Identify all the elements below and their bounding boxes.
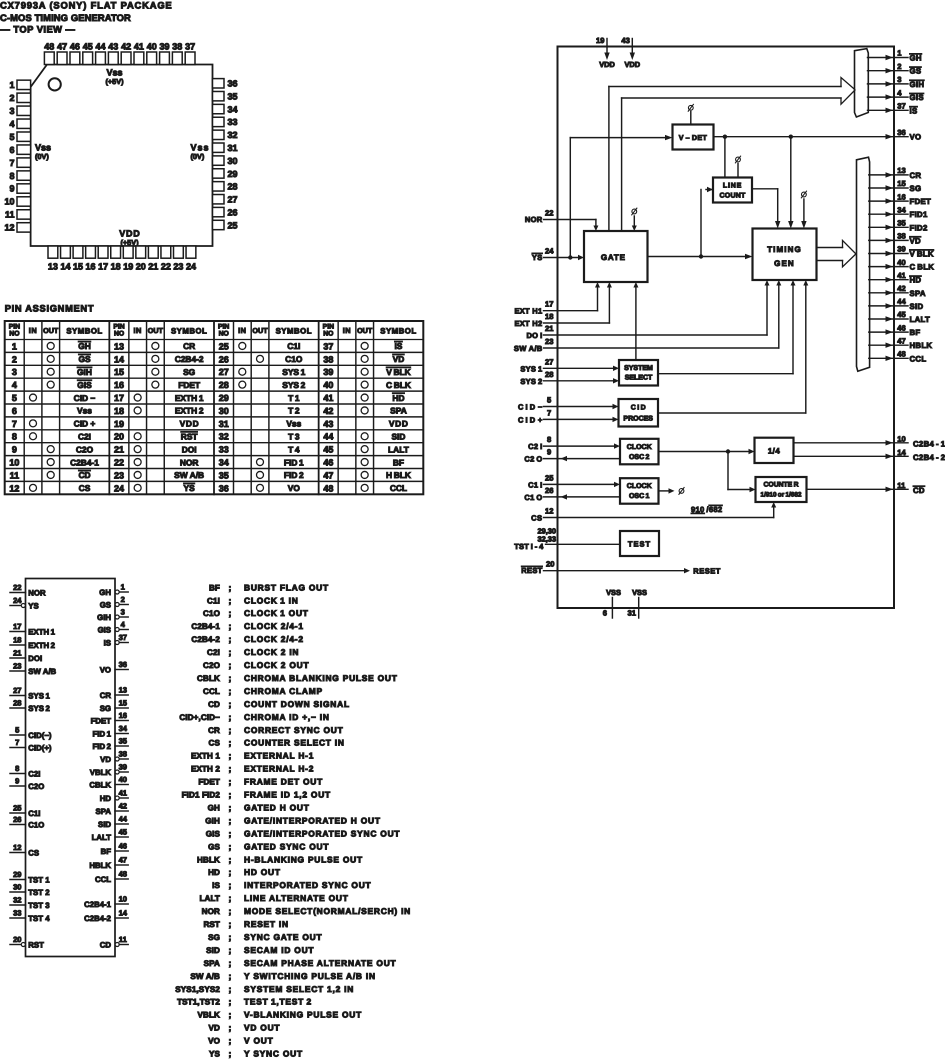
svg-text:25: 25 bbox=[545, 473, 554, 482]
svg-text:VSS: VSS bbox=[606, 588, 621, 597]
svg-text:5: 5 bbox=[9, 132, 14, 142]
svg-text:TST I - 4: TST I - 4 bbox=[514, 542, 544, 551]
svg-text:LINE: LINE bbox=[723, 183, 742, 190]
output pin 4 GIS bbox=[868, 96, 909, 98]
svg-text:19: 19 bbox=[123, 262, 133, 272]
output pin 3 GIH bbox=[868, 83, 909, 85]
svg-text:OUT: OUT bbox=[252, 326, 268, 335]
svg-text:11: 11 bbox=[10, 470, 20, 480]
svg-text:;: ; bbox=[229, 984, 232, 994]
svg-text:IN: IN bbox=[29, 326, 37, 335]
clock phi input to GATE bbox=[632, 209, 637, 214]
svg-text:GIS: GIS bbox=[910, 93, 924, 102]
package pin 40 (top) bbox=[147, 52, 157, 65]
svg-text:BURST FLAG OUT: BURST FLAG OUT bbox=[244, 582, 329, 592]
svg-text:V-BLANKING PULSE OUT: V-BLANKING PULSE OUT bbox=[244, 1010, 362, 1020]
svg-text:17: 17 bbox=[98, 262, 108, 272]
svg-text:C2B4-2: C2B4-2 bbox=[191, 635, 220, 644]
svg-text:PIN: PIN bbox=[113, 324, 124, 331]
wire junction to LINE COUNT top bbox=[724, 137, 726, 178]
svg-text:42: 42 bbox=[119, 801, 127, 810]
svg-text:HD OUT: HD OUT bbox=[244, 867, 281, 877]
package pin 13 (bottom) bbox=[48, 246, 58, 258]
svg-text:CLOCK 2 OUT: CLOCK 2 OUT bbox=[244, 660, 309, 670]
svg-text:GS: GS bbox=[78, 354, 91, 364]
svg-text:1/4: 1/4 bbox=[768, 447, 781, 456]
svg-text:C2 I: C2 I bbox=[528, 442, 542, 451]
package pin 3 (left) bbox=[17, 106, 31, 115]
output pin 37 IS bbox=[868, 109, 909, 111]
svg-text:C2B4 - 2: C2B4 - 2 bbox=[913, 453, 945, 462]
svg-text:;: ; bbox=[229, 777, 232, 787]
svg-text:21: 21 bbox=[114, 445, 124, 455]
svg-text:7: 7 bbox=[547, 408, 551, 417]
svg-text:46: 46 bbox=[323, 457, 333, 467]
svg-text:CHROMA ID +,− IN: CHROMA ID +,− IN bbox=[244, 712, 330, 722]
svg-text:SYS1,SYS2: SYS1,SYS2 bbox=[175, 985, 220, 994]
hollow block-arrow head into top bus bar bbox=[841, 78, 855, 105]
svg-text:NO: NO bbox=[323, 331, 333, 338]
svg-text:C2O: C2O bbox=[76, 444, 94, 454]
package pin 36 (right) bbox=[213, 79, 225, 88]
svg-text:EXTH 2: EXTH 2 bbox=[28, 641, 55, 650]
svg-text:37: 37 bbox=[897, 102, 905, 111]
svg-text:CCL: CCL bbox=[203, 687, 220, 696]
svg-text:28: 28 bbox=[219, 380, 229, 390]
svg-text:NOR: NOR bbox=[202, 907, 220, 916]
svg-text:4: 4 bbox=[897, 88, 902, 97]
svg-text:CR: CR bbox=[183, 341, 195, 351]
svg-text:V – DET: V – DET bbox=[679, 134, 708, 142]
svg-text:16: 16 bbox=[119, 711, 127, 720]
svg-text:NO: NO bbox=[114, 331, 124, 338]
svg-text:3: 3 bbox=[121, 607, 125, 616]
wire CID PROCES out to TIMING GEN bbox=[658, 412, 806, 414]
net VO from V-DET to pin 36 bbox=[714, 136, 909, 138]
svg-text:VO: VO bbox=[208, 1037, 220, 1046]
svg-text:;: ; bbox=[229, 582, 232, 592]
symbol pin 13 CR (right) bbox=[115, 694, 128, 696]
svg-text:YS: YS bbox=[532, 253, 543, 262]
svg-text:GATE/INTERPORATED H OUT: GATE/INTERPORATED H OUT bbox=[244, 815, 381, 825]
OSC1 phi output bbox=[659, 490, 670, 492]
svg-text:33: 33 bbox=[219, 445, 229, 455]
svg-text:C2O: C2O bbox=[203, 661, 220, 670]
symbol pin 39 VBLK (right) bbox=[115, 770, 119, 774]
svg-text:48: 48 bbox=[897, 350, 905, 359]
svg-text:DOI: DOI bbox=[28, 654, 42, 663]
svg-text:7: 7 bbox=[12, 419, 17, 429]
svg-text:47: 47 bbox=[57, 42, 67, 52]
svg-text:TST 4: TST 4 bbox=[28, 914, 50, 923]
svg-text:GEN: GEN bbox=[774, 259, 795, 268]
svg-text:33: 33 bbox=[228, 117, 238, 127]
svg-text:26: 26 bbox=[219, 354, 229, 364]
svg-text:GS: GS bbox=[208, 842, 220, 851]
svg-text:26: 26 bbox=[545, 486, 553, 495]
svg-text:OSC 2: OSC 2 bbox=[629, 454, 650, 461]
package pin 44 (top) bbox=[96, 52, 106, 65]
svg-text:45: 45 bbox=[119, 827, 128, 836]
clock phi input to V-DET bbox=[688, 105, 693, 110]
symbol pin 32 TST 3 (left) bbox=[10, 904, 26, 906]
symbol pin 8 C2I (left) bbox=[10, 773, 26, 775]
package pin 37 (top) bbox=[185, 52, 195, 65]
svg-text:18: 18 bbox=[545, 312, 553, 321]
V-DET block bbox=[673, 125, 714, 150]
svg-text:VD OUT: VD OUT bbox=[244, 1023, 280, 1033]
svg-text:3: 3 bbox=[9, 106, 14, 116]
svg-text:;: ; bbox=[229, 867, 232, 877]
wire junction to TIMING GEN top bbox=[790, 137, 792, 224]
svg-text:NO: NO bbox=[9, 331, 19, 338]
svg-text:44: 44 bbox=[95, 42, 105, 52]
svg-text:SYSTEM: SYSTEM bbox=[624, 365, 653, 372]
svg-text:;: ; bbox=[229, 880, 232, 890]
svg-text:;: ; bbox=[229, 686, 232, 696]
TEST block bbox=[620, 531, 659, 556]
symbol pin 26 C1O (left) bbox=[10, 824, 26, 826]
package pin 1 (left) bbox=[17, 80, 31, 89]
svg-text:C BLK: C BLK bbox=[910, 263, 935, 272]
symbol pin 23 SW A/B (left) bbox=[10, 670, 26, 672]
COUNTER 1/910 or 1/682 block bbox=[756, 477, 807, 502]
wire LINE COUNT left input from GATE output net bbox=[706, 189, 713, 191]
svg-text:BF: BF bbox=[910, 328, 921, 337]
svg-text:CID(−): CID(−) bbox=[28, 731, 52, 740]
svg-text:34: 34 bbox=[228, 104, 238, 114]
svg-text:VD: VD bbox=[910, 236, 922, 245]
symbol pin 29 TST 1 (left) bbox=[10, 879, 26, 881]
symbol pin 24 YS (left) bbox=[10, 605, 21, 607]
svg-text:;: ; bbox=[229, 699, 232, 709]
svg-text:IS: IS bbox=[394, 341, 402, 351]
svg-text:40: 40 bbox=[323, 380, 333, 390]
output pin 1 GH bbox=[868, 57, 909, 59]
package pin 48 (top) bbox=[44, 52, 54, 65]
wire LINE COUNT out to TIMING GEN top bbox=[752, 188, 778, 190]
svg-text:SYMBOL: SYMBOL bbox=[66, 327, 102, 336]
package pin 2 (left) bbox=[17, 93, 31, 102]
svg-text:NO: NO bbox=[219, 331, 229, 338]
svg-text:18: 18 bbox=[111, 262, 121, 272]
symbol pin 48 CCL (right) bbox=[115, 878, 128, 880]
output pin 2 GS bbox=[868, 70, 909, 72]
svg-text:48: 48 bbox=[119, 869, 127, 878]
svg-text:6: 6 bbox=[9, 145, 14, 155]
svg-text:RESET: RESET bbox=[693, 566, 721, 575]
svg-text:34: 34 bbox=[897, 205, 906, 214]
svg-text:32: 32 bbox=[13, 895, 21, 904]
svg-text:30: 30 bbox=[228, 156, 238, 166]
svg-text:CID(+): CID(+) bbox=[28, 743, 52, 752]
svg-text:FDET: FDET bbox=[910, 197, 932, 206]
svg-text:H BLK: H BLK bbox=[386, 470, 411, 480]
svg-text:39: 39 bbox=[159, 42, 169, 52]
svg-text:CCL: CCL bbox=[910, 354, 927, 363]
svg-text:SYS 2: SYS 2 bbox=[282, 380, 305, 390]
svg-text:C BLK: C BLK bbox=[386, 380, 411, 390]
svg-text:35: 35 bbox=[119, 736, 128, 745]
svg-text:;: ; bbox=[229, 608, 232, 618]
svg-text:LALT: LALT bbox=[388, 444, 410, 454]
package pin 6 (left) bbox=[17, 145, 31, 154]
svg-text:Vss: Vss bbox=[286, 419, 301, 429]
package pin 35 (right) bbox=[213, 91, 225, 100]
symbol pin 18 EXTH&#8201;2 (left) bbox=[10, 644, 26, 646]
svg-text:13: 13 bbox=[897, 166, 905, 175]
svg-text:IN: IN bbox=[343, 326, 351, 335]
svg-text:22: 22 bbox=[161, 262, 171, 272]
svg-text:28: 28 bbox=[13, 698, 21, 707]
svg-text:27: 27 bbox=[13, 686, 21, 695]
svg-text:HD: HD bbox=[392, 393, 404, 403]
svg-text:CHROMA BLANKING PULSE OUT: CHROMA BLANKING PULSE OUT bbox=[244, 673, 398, 683]
svg-text:45: 45 bbox=[897, 310, 906, 319]
svg-text:15: 15 bbox=[114, 367, 124, 377]
wire OSC2 out bbox=[659, 451, 750, 453]
package pin 17 (bottom) bbox=[98, 246, 108, 258]
svg-text:SECAM ID OUT: SECAM ID OUT bbox=[244, 945, 314, 955]
svg-text:13: 13 bbox=[114, 341, 124, 351]
svg-text:VBLK: VBLK bbox=[90, 768, 112, 777]
svg-text:32: 32 bbox=[228, 130, 238, 140]
svg-text:;: ; bbox=[229, 634, 232, 644]
package pin 47 (top) bbox=[57, 52, 67, 65]
CID PROCES block bbox=[619, 399, 659, 427]
wire SYSTEM SELECT out to TIMING GEN bbox=[658, 373, 793, 375]
svg-text:39: 39 bbox=[897, 245, 905, 254]
package pin 38 (top) bbox=[172, 52, 182, 65]
svg-text:;: ; bbox=[229, 764, 232, 774]
svg-text:GIH: GIH bbox=[910, 80, 925, 89]
svg-text:23: 23 bbox=[173, 262, 183, 272]
svg-text:GS: GS bbox=[100, 600, 111, 609]
svg-text:C-MOS TIMING GENERATOR: C-MOS TIMING GENERATOR bbox=[0, 12, 131, 23]
svg-text:CID +: CID + bbox=[74, 419, 96, 429]
svg-text:CCL: CCL bbox=[390, 483, 407, 493]
svg-text:YS: YS bbox=[28, 601, 38, 610]
svg-text:32: 32 bbox=[219, 432, 229, 442]
svg-text:DO I: DO I bbox=[526, 331, 542, 340]
svg-text:C1I: C1I bbox=[287, 341, 300, 351]
svg-text:30: 30 bbox=[219, 406, 229, 416]
svg-text:VO: VO bbox=[100, 665, 111, 674]
svg-text:20: 20 bbox=[114, 432, 124, 442]
svg-text:40: 40 bbox=[897, 258, 905, 267]
svg-text:T 1: T 1 bbox=[288, 393, 300, 403]
svg-text:37: 37 bbox=[185, 42, 195, 52]
svg-text:EXTH 2: EXTH 2 bbox=[175, 406, 204, 416]
svg-text:SYNC GATE OUT: SYNC GATE OUT bbox=[244, 932, 322, 942]
top output bus bar bbox=[855, 49, 869, 117]
package pin 19 (bottom) bbox=[123, 246, 133, 258]
svg-text:CCL: CCL bbox=[95, 875, 111, 884]
symbol pin 12 CS (left) bbox=[10, 852, 26, 854]
svg-text:C2B4 - 1: C2B4 - 1 bbox=[913, 439, 945, 448]
symbol pin 1 GH (right) bbox=[115, 590, 119, 594]
clock phi input to LINE COUNT bbox=[736, 157, 741, 162]
symbol pin 16 FDET (right) bbox=[115, 720, 128, 722]
svg-text:C1 I: C1 I bbox=[528, 480, 542, 489]
svg-text:10: 10 bbox=[9, 457, 19, 467]
svg-text:2: 2 bbox=[9, 93, 14, 103]
svg-text:15: 15 bbox=[73, 262, 83, 272]
svg-text:CLOCK 1 IN: CLOCK 1 IN bbox=[244, 595, 299, 605]
svg-text:14: 14 bbox=[60, 262, 70, 272]
svg-text:29: 29 bbox=[228, 169, 238, 179]
svg-text:TST1,TST2: TST1,TST2 bbox=[177, 998, 220, 1007]
package pin 16 (bottom) bbox=[86, 246, 96, 258]
svg-text:27: 27 bbox=[228, 195, 238, 205]
svg-text:8: 8 bbox=[15, 764, 19, 773]
package pin 28 (right) bbox=[213, 182, 225, 191]
svg-text:SG: SG bbox=[208, 933, 220, 942]
symbol pin 34 FID&#8201;1 (right) bbox=[115, 733, 128, 735]
svg-text:9: 9 bbox=[12, 445, 17, 455]
1/4 divider block bbox=[755, 438, 794, 463]
svg-text:8: 8 bbox=[547, 435, 551, 444]
svg-text:44: 44 bbox=[119, 814, 128, 823]
svg-text:35: 35 bbox=[228, 91, 238, 101]
svg-text:T 3: T 3 bbox=[288, 431, 300, 441]
svg-text:FDET: FDET bbox=[91, 716, 112, 725]
svg-text:15: 15 bbox=[119, 698, 128, 707]
symbol pin 40 CBLK (right) bbox=[115, 784, 128, 786]
package pin 45 (top) bbox=[83, 52, 93, 65]
svg-text:OUT: OUT bbox=[357, 326, 373, 335]
svg-text:OUT: OUT bbox=[148, 326, 164, 335]
svg-text:16: 16 bbox=[114, 380, 124, 390]
svg-text:;: ; bbox=[229, 1023, 232, 1033]
svg-text:11: 11 bbox=[897, 481, 906, 490]
svg-text:FID 2: FID 2 bbox=[93, 742, 112, 751]
output pin 34 FID1 bbox=[869, 213, 908, 215]
svg-text:TIMING: TIMING bbox=[767, 245, 802, 254]
svg-text:SID: SID bbox=[391, 431, 405, 441]
svg-text:48: 48 bbox=[323, 483, 333, 493]
pin-1 index dot bbox=[49, 78, 61, 90]
svg-text:5: 5 bbox=[15, 725, 20, 734]
svg-text:SYMBOL: SYMBOL bbox=[171, 327, 207, 336]
symbol pin 33 TST 4 (left) bbox=[10, 917, 26, 919]
svg-text:19: 19 bbox=[114, 419, 124, 429]
svg-text:16: 16 bbox=[897, 192, 905, 201]
package pin 29 (right) bbox=[213, 169, 225, 178]
svg-text:;: ; bbox=[229, 595, 232, 605]
svg-text:HBLK: HBLK bbox=[910, 341, 933, 350]
svg-text:CLOCK: CLOCK bbox=[627, 444, 652, 451]
svg-text:9: 9 bbox=[9, 184, 14, 194]
svg-text:38: 38 bbox=[897, 232, 905, 241]
package pin 25 (right) bbox=[213, 220, 225, 229]
svg-text:38: 38 bbox=[323, 354, 333, 364]
svg-text:C1I: C1I bbox=[207, 596, 220, 605]
svg-text:HBLK: HBLK bbox=[89, 861, 111, 870]
svg-text:GIS: GIS bbox=[77, 380, 92, 390]
svg-text:46: 46 bbox=[897, 323, 905, 332]
svg-text:TST 1: TST 1 bbox=[28, 875, 50, 884]
svg-text:YS: YS bbox=[184, 483, 196, 493]
symbol pin 7 CID(+) (left) bbox=[10, 747, 26, 749]
svg-text:48: 48 bbox=[44, 42, 54, 52]
svg-text:;: ; bbox=[229, 712, 232, 722]
svg-text:GIH: GIH bbox=[77, 367, 92, 377]
svg-text:COUNT DOWN SIGNAL: COUNT DOWN SIGNAL bbox=[244, 699, 350, 709]
svg-text:PROCES: PROCES bbox=[623, 416, 653, 423]
svg-text:REST: REST bbox=[521, 566, 542, 575]
svg-text:34: 34 bbox=[119, 724, 128, 733]
svg-text:GH: GH bbox=[99, 588, 111, 597]
svg-text:;: ; bbox=[229, 997, 232, 1007]
svg-text:2: 2 bbox=[12, 354, 17, 364]
svg-text:12: 12 bbox=[13, 843, 21, 852]
output pin 42 SPA bbox=[869, 292, 908, 294]
SYSTEM SELECT block bbox=[619, 360, 658, 386]
svg-text:NOR: NOR bbox=[180, 457, 199, 467]
package pin 7 (left) bbox=[17, 158, 31, 167]
svg-text:OUT: OUT bbox=[43, 326, 59, 335]
package pin 20 (bottom) bbox=[136, 246, 146, 258]
output pin 46 BF bbox=[869, 331, 908, 333]
svg-text:42: 42 bbox=[897, 284, 905, 293]
svg-text:GATE: GATE bbox=[601, 253, 626, 262]
svg-text:GATED H OUT: GATED H OUT bbox=[244, 802, 310, 812]
svg-text:42: 42 bbox=[121, 42, 131, 52]
svg-text:;: ; bbox=[229, 673, 232, 683]
svg-text:IN: IN bbox=[133, 326, 141, 335]
svg-text:45: 45 bbox=[83, 42, 93, 52]
svg-text:OSC 1: OSC 1 bbox=[629, 493, 650, 500]
svg-text:3: 3 bbox=[897, 75, 901, 84]
svg-text:RST: RST bbox=[181, 431, 199, 441]
symbol pin 25 C1I (left) bbox=[10, 812, 26, 814]
svg-text:CLOCK 2/4-2: CLOCK 2/4-2 bbox=[244, 634, 304, 644]
symbol pin 20 RST (left) bbox=[10, 944, 21, 946]
clock phi input to TIMING GEN bbox=[802, 192, 807, 197]
svg-text:CS: CS bbox=[209, 739, 221, 748]
svg-text:2: 2 bbox=[121, 595, 125, 604]
output pin 14 C2B4-2 bbox=[794, 455, 909, 457]
svg-text:5: 5 bbox=[547, 396, 552, 405]
svg-text:37: 37 bbox=[119, 633, 127, 642]
svg-text:C2B4-1: C2B4-1 bbox=[191, 622, 220, 631]
symbol pin 21 DOI (left) bbox=[10, 657, 26, 659]
svg-text:NOR: NOR bbox=[525, 215, 543, 224]
svg-text:28: 28 bbox=[545, 370, 553, 379]
svg-text:29: 29 bbox=[13, 870, 21, 879]
svg-text:C1O: C1O bbox=[28, 820, 44, 829]
LINE COUNT block bbox=[713, 178, 752, 203]
svg-text:19: 19 bbox=[596, 36, 604, 45]
block diagram outer border bbox=[558, 47, 895, 609]
svg-text:C2 O: C2 O bbox=[524, 455, 542, 464]
svg-text:SECAM PHASE ALTERNATE OUT: SECAM PHASE ALTERNATE OUT bbox=[244, 958, 397, 968]
svg-text:20: 20 bbox=[13, 935, 21, 944]
package pin 33 (right) bbox=[213, 117, 225, 126]
svg-text:910 /682: 910 /682 bbox=[691, 505, 722, 514]
package pin 10 (left) bbox=[17, 197, 31, 206]
VDD supply pin 43 bbox=[631, 39, 633, 56]
svg-text:IN: IN bbox=[238, 326, 246, 335]
svg-text:GH: GH bbox=[78, 341, 91, 351]
svg-text:SPA: SPA bbox=[204, 959, 220, 968]
svg-text:FID 2: FID 2 bbox=[284, 470, 304, 480]
svg-text:;: ; bbox=[229, 790, 232, 800]
svg-text:16: 16 bbox=[86, 262, 96, 272]
svg-text:;: ; bbox=[229, 945, 232, 955]
svg-text:SYS 2: SYS 2 bbox=[520, 377, 542, 386]
